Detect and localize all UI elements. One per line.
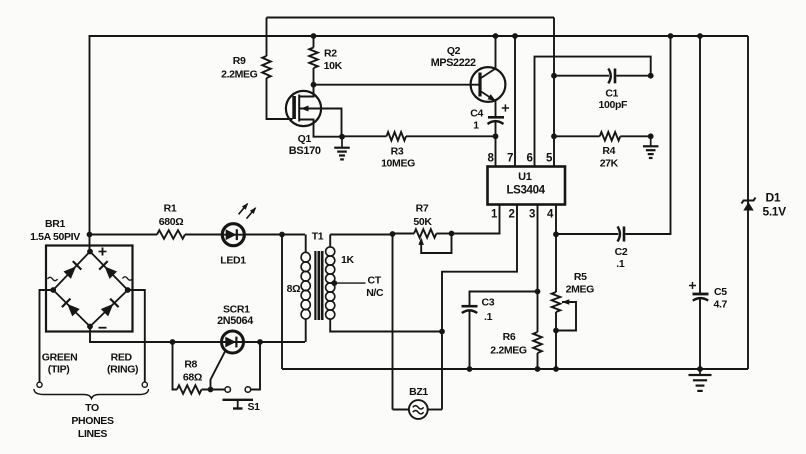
wire oscillator feedback (R9 top to pin 5) (267, 17, 555, 19)
node C3 at rail (467, 366, 473, 372)
capacitor C1 left curved plate (608, 69, 610, 84)
svg-text:1: 1 (473, 120, 479, 132)
terminal circle right (142, 382, 147, 387)
svg-text:R1: R1 (164, 203, 177, 215)
svg-text:D1: D1 (766, 191, 781, 205)
wire left rail to bridge (89, 36, 91, 252)
Q2 collector diagonal (481, 69, 496, 79)
node R5 wiper tie (553, 328, 559, 334)
svg-text:2.2MEG: 2.2MEG (221, 69, 258, 81)
wire C4 to pin 8 (495, 122, 497, 167)
Q1 gate bar (292, 96, 296, 119)
svg-text:2: 2 (508, 209, 514, 221)
wire top rail +V (89, 35, 749, 37)
svg-text:7: 7 (507, 153, 513, 165)
svg-text:R9: R9 (233, 55, 246, 67)
svg-text:3: 3 (529, 209, 535, 221)
S1 plunger bar (223, 399, 254, 401)
Q2 collector lead (495, 36, 497, 69)
wire R2 bottom lead (313, 68, 315, 85)
wire bridge minus to SCR (90, 327, 222, 343)
resistor R3 (387, 132, 407, 141)
node Q1 drain / Q2 base / R2 (311, 82, 317, 88)
Q1 substrate arrow line (300, 109, 342, 137)
resistor R1 (157, 230, 185, 239)
BR1 diode top-left (64, 266, 77, 279)
wire R9 top lead (266, 18, 268, 57)
T1 core bar right (317, 251, 320, 320)
svg-text:8Ω: 8Ω (287, 283, 301, 295)
diode LED1 circle (222, 224, 244, 246)
BR1 node bottom (87, 324, 93, 330)
SCR1 cathode bar (235, 337, 237, 348)
node pin7 at rail (512, 33, 518, 39)
svg-text:R7: R7 (416, 203, 429, 215)
svg-text:C5: C5 (714, 286, 727, 298)
svg-text:T1: T1 (312, 231, 324, 243)
capacitor C3 bottom curved plate (462, 310, 477, 313)
wire R7 left lead (393, 233, 415, 235)
svg-text:U1: U1 (518, 171, 532, 183)
svg-text:Q2: Q2 (447, 45, 461, 57)
SCR1 gate lead (211, 350, 227, 390)
BR1 plus sign (99, 251, 107, 253)
svg-text:5.1V: 5.1V (763, 205, 787, 219)
wire R4 right lead (620, 135, 650, 137)
BR1 minus sign (99, 327, 107, 329)
svg-text:6: 6 (526, 153, 532, 165)
node R2 top (311, 33, 317, 39)
svg-text:LINES: LINES (78, 428, 108, 440)
S1 plunger stem (237, 400, 239, 408)
Q2 emitter arrowhead (488, 94, 496, 101)
capacitor C5 bottom curved plate (693, 298, 708, 301)
wire R6 bottom lead (537, 353, 539, 369)
Q2 emitter diagonal (481, 92, 495, 101)
svg-text:68Ω: 68Ω (183, 372, 202, 384)
svg-text:R2: R2 (324, 48, 337, 60)
op-amp U1 body (488, 167, 566, 205)
BR1 diamond (53, 252, 128, 327)
wire R1 to LED1 (185, 234, 223, 236)
svg-text:27K: 27K (600, 157, 619, 169)
node LED1/T1/bottom-rail riser (279, 232, 285, 238)
wire bottom rail riser at LED/T1 node (281, 235, 283, 370)
rectifier BR1 outer box (46, 246, 133, 332)
BR1 ac squiggle right (123, 277, 133, 281)
node R8 / S1 / gate (208, 387, 214, 393)
resistor R4 (600, 132, 621, 141)
wire T1 primary bottom lead (305, 319, 307, 342)
wire R4 left lead (554, 135, 600, 137)
capacitor C5 top plate (693, 293, 709, 296)
svg-text:PHONES: PHONES (71, 415, 114, 427)
svg-text:BZ1: BZ1 (409, 386, 428, 398)
svg-text:5: 5 (546, 153, 553, 165)
BR1 ac squiggle left (48, 277, 58, 281)
svg-text:C4: C4 (470, 108, 483, 120)
svg-text:50K: 50K (413, 216, 432, 228)
svg-text:RED: RED (111, 352, 133, 364)
node Q1 source / R3 / ground (339, 134, 345, 140)
terminal circle left (37, 382, 42, 387)
svg-text:C2: C2 (615, 246, 628, 258)
svg-text:N/C: N/C (366, 287, 384, 299)
node S1 right riser (257, 339, 263, 345)
BR1 diode top-right (105, 266, 118, 279)
BR1 node top (87, 249, 93, 255)
wire pin 4 down (555, 205, 557, 235)
svg-text:680Ω: 680Ω (159, 216, 184, 228)
ground at Q1 source (341, 137, 343, 148)
wire pin 6 up-over to C1 right node (535, 57, 651, 167)
resistor R6 (533, 332, 542, 353)
svg-text:GREEN: GREEN (42, 352, 78, 364)
wire Q2 emitter to C4 (495, 101, 497, 118)
node pin4 / C2 / R5 (553, 231, 559, 237)
wire R9 bottom to Q1 gate (267, 78, 293, 119)
T1 secondary winding (326, 247, 335, 256)
svg-text:.1: .1 (616, 258, 625, 270)
node T1 center tap (331, 280, 337, 286)
wire T1 secondary top lead (329, 235, 331, 248)
wire R5 top lead (555, 234, 557, 292)
node R8 branch (170, 339, 176, 345)
S1 plunger foot (233, 407, 243, 409)
Q1 channel bar (298, 95, 300, 122)
wire R1 left lead (90, 234, 158, 236)
node R7 right / wiper (449, 231, 455, 237)
BR1 node left (50, 287, 56, 293)
T1 primary winding (301, 252, 310, 262)
svg-text:R3: R3 (391, 146, 404, 158)
wire BZ1 left riser (392, 234, 394, 410)
node Q2 collector at rail (493, 33, 499, 39)
LED1 wire through (223, 234, 245, 236)
svg-text:R4: R4 (602, 145, 615, 157)
svg-text:1: 1 (491, 209, 498, 221)
node R7 left / BZ1 riser (390, 231, 396, 237)
ground at R4/C1 (650, 136, 652, 146)
svg-text:CT: CT (368, 274, 382, 286)
wire pin 3 down (537, 205, 539, 292)
svg-text:1.5A 50PIV: 1.5A 50PIV (30, 231, 80, 243)
wire R6 top lead (537, 292, 539, 333)
node R6 at rail (535, 366, 541, 372)
Q1 substrate arrowhead (301, 106, 309, 112)
C5 plus sign (689, 285, 696, 287)
transistor Q1 body circle (286, 91, 321, 126)
node R5 at rail (553, 366, 559, 372)
wire R8 left lead (173, 342, 178, 390)
wire C2 right lead to rail (625, 36, 670, 234)
BR1 diode bottom-right (101, 304, 114, 317)
node left rail / R1 (87, 232, 93, 238)
svg-text:SCR1: SCR1 (223, 304, 250, 316)
svg-text:S1: S1 (248, 401, 261, 413)
wire R3 left lead (342, 135, 387, 137)
wire pin 1 to R7 (452, 205, 500, 234)
svg-text:10MEG: 10MEG (381, 157, 415, 169)
svg-text:BS170: BS170 (289, 145, 321, 157)
LED1 triangle (226, 229, 237, 240)
switch S1 contact right (245, 387, 251, 393)
wire R8 right to S1 (202, 389, 226, 391)
wire pin 2 to BZ1 (442, 205, 517, 410)
wire right rail to D1 (747, 36, 749, 369)
svg-text:2MEG: 2MEG (566, 284, 595, 296)
SCR1 triangle (225, 337, 236, 348)
wire BZ1 left lead (393, 409, 410, 411)
potentiometer R7 (414, 229, 436, 238)
node pin5 / C1 left (551, 73, 557, 79)
brace under terminals (34, 389, 149, 399)
Q1 source stub (299, 120, 342, 137)
capacitor C3 top plate (462, 305, 478, 308)
SCR1 wire through (222, 341, 244, 343)
svg-text:MPS2222: MPS2222 (431, 57, 476, 69)
wire bottom ground rail (282, 368, 748, 370)
BR1 diode bottom-left (67, 304, 80, 317)
wire R3 right lead (406, 135, 496, 137)
wire C3 bottom lead (469, 311, 471, 369)
wire C5 riser (699, 36, 701, 293)
svg-text:R8: R8 (184, 359, 197, 371)
resistor R9 (262, 56, 271, 78)
capacitor C1 right flat plate (614, 69, 617, 84)
wire R7 right lead (436, 233, 451, 235)
svg-text:.1: .1 (484, 311, 493, 323)
svg-text:4: 4 (547, 209, 554, 221)
R7 wiper loop (421, 234, 451, 254)
node pin2 riser / T1 secondary bottom (439, 329, 445, 335)
wire T1 primary top lead (305, 235, 307, 254)
node R4 right / ground (648, 133, 654, 139)
wire C3 top loop (470, 292, 538, 307)
svg-text:(RING): (RING) (107, 363, 138, 375)
svg-text:1K: 1K (341, 254, 354, 266)
svg-text:Q1: Q1 (298, 133, 312, 145)
svg-text:(TIP): (TIP) (48, 363, 70, 375)
svg-text:R5: R5 (574, 271, 587, 283)
Q2 base bar (478, 73, 481, 97)
node C5 riser at rail (697, 33, 703, 39)
capacitor C2 left curved plate (618, 227, 620, 242)
wire BR1 right node to terminal (128, 290, 145, 382)
svg-text:LS3404: LS3404 (507, 185, 546, 197)
LED1 arrow 2 (247, 208, 256, 218)
svg-text:10K: 10K (324, 60, 343, 72)
wire LED1 to T1 (244, 234, 305, 236)
wire Q2 base wire (314, 84, 480, 86)
ground at bottom rail (699, 369, 701, 375)
T1 core bar left (314, 251, 316, 320)
node C1 right (648, 73, 654, 79)
svg-text:2.2MEG: 2.2MEG (490, 345, 527, 357)
svg-text:C3: C3 (482, 297, 495, 309)
potentiometer R5 (552, 292, 561, 312)
node pin3 / C3 / R6 (535, 289, 541, 295)
C4 plus sign (502, 107, 509, 109)
switch S1 contact left (225, 387, 231, 393)
Q1 drain stub (299, 85, 313, 97)
node R3 / C4 / pin 8 (493, 133, 499, 139)
transistor Q2 body circle (471, 67, 506, 102)
svg-text:R6: R6 (503, 331, 516, 343)
svg-text:LED1: LED1 (220, 254, 246, 266)
wire pin 5 to feedback line (553, 18, 555, 167)
D1 triangle (743, 202, 753, 211)
wire C5 bottom lead (699, 299, 701, 369)
wire T1 secondary top to R7 wire (330, 234, 392, 236)
svg-text:100pF: 100pF (598, 99, 628, 111)
R7 wiper arrowhead (418, 237, 424, 245)
R5 wiper arrowhead (562, 299, 570, 305)
svg-text:4.7: 4.7 (714, 299, 728, 311)
wire C1 right lead (616, 75, 650, 77)
resistor R8 (177, 385, 202, 394)
wire R5 bottom lead (555, 312, 557, 369)
wire S1 right riser (251, 342, 260, 390)
wire center tap (334, 282, 365, 284)
svg-text:8: 8 (487, 153, 494, 165)
LED1 cathode bar (236, 229, 238, 240)
svg-text:2N5064: 2N5064 (217, 315, 253, 327)
node C5 / ground at rail (697, 366, 703, 372)
wire C2 left lead (556, 233, 618, 235)
wire T1 secondary bottom lead (330, 319, 442, 332)
node C2 riser at rail (668, 33, 674, 39)
wire R2 top lead (313, 36, 315, 48)
capacitor C4 bottom curved plate (488, 121, 504, 124)
capacitor C2 right flat plate (623, 227, 626, 242)
buzzer BZ1 circle (409, 400, 428, 419)
wire pin 7 (514, 36, 516, 167)
wire C1 left lead (554, 75, 609, 77)
R5 wiper loop (556, 302, 576, 331)
thyristor SCR1 circle (222, 331, 244, 353)
wire BR1 left node to terminal (40, 290, 54, 382)
svg-text:C1: C1 (605, 88, 618, 100)
T1 core bar third (321, 251, 324, 320)
wire BZ1 right lead (428, 409, 442, 411)
BZ1 ac symbol (413, 406, 424, 414)
svg-text:BR1: BR1 (45, 218, 65, 230)
capacitor C4 top plate (488, 116, 504, 119)
svg-text:TO: TO (85, 402, 99, 414)
LED1 arrow 1 (239, 204, 248, 214)
diode D1 zener bar (742, 198, 756, 204)
BR1 node right (125, 287, 131, 293)
resistor R2 (309, 48, 318, 69)
node pin5 / R4 left (551, 133, 557, 139)
wire SCR1 to T1 primary (244, 341, 306, 343)
